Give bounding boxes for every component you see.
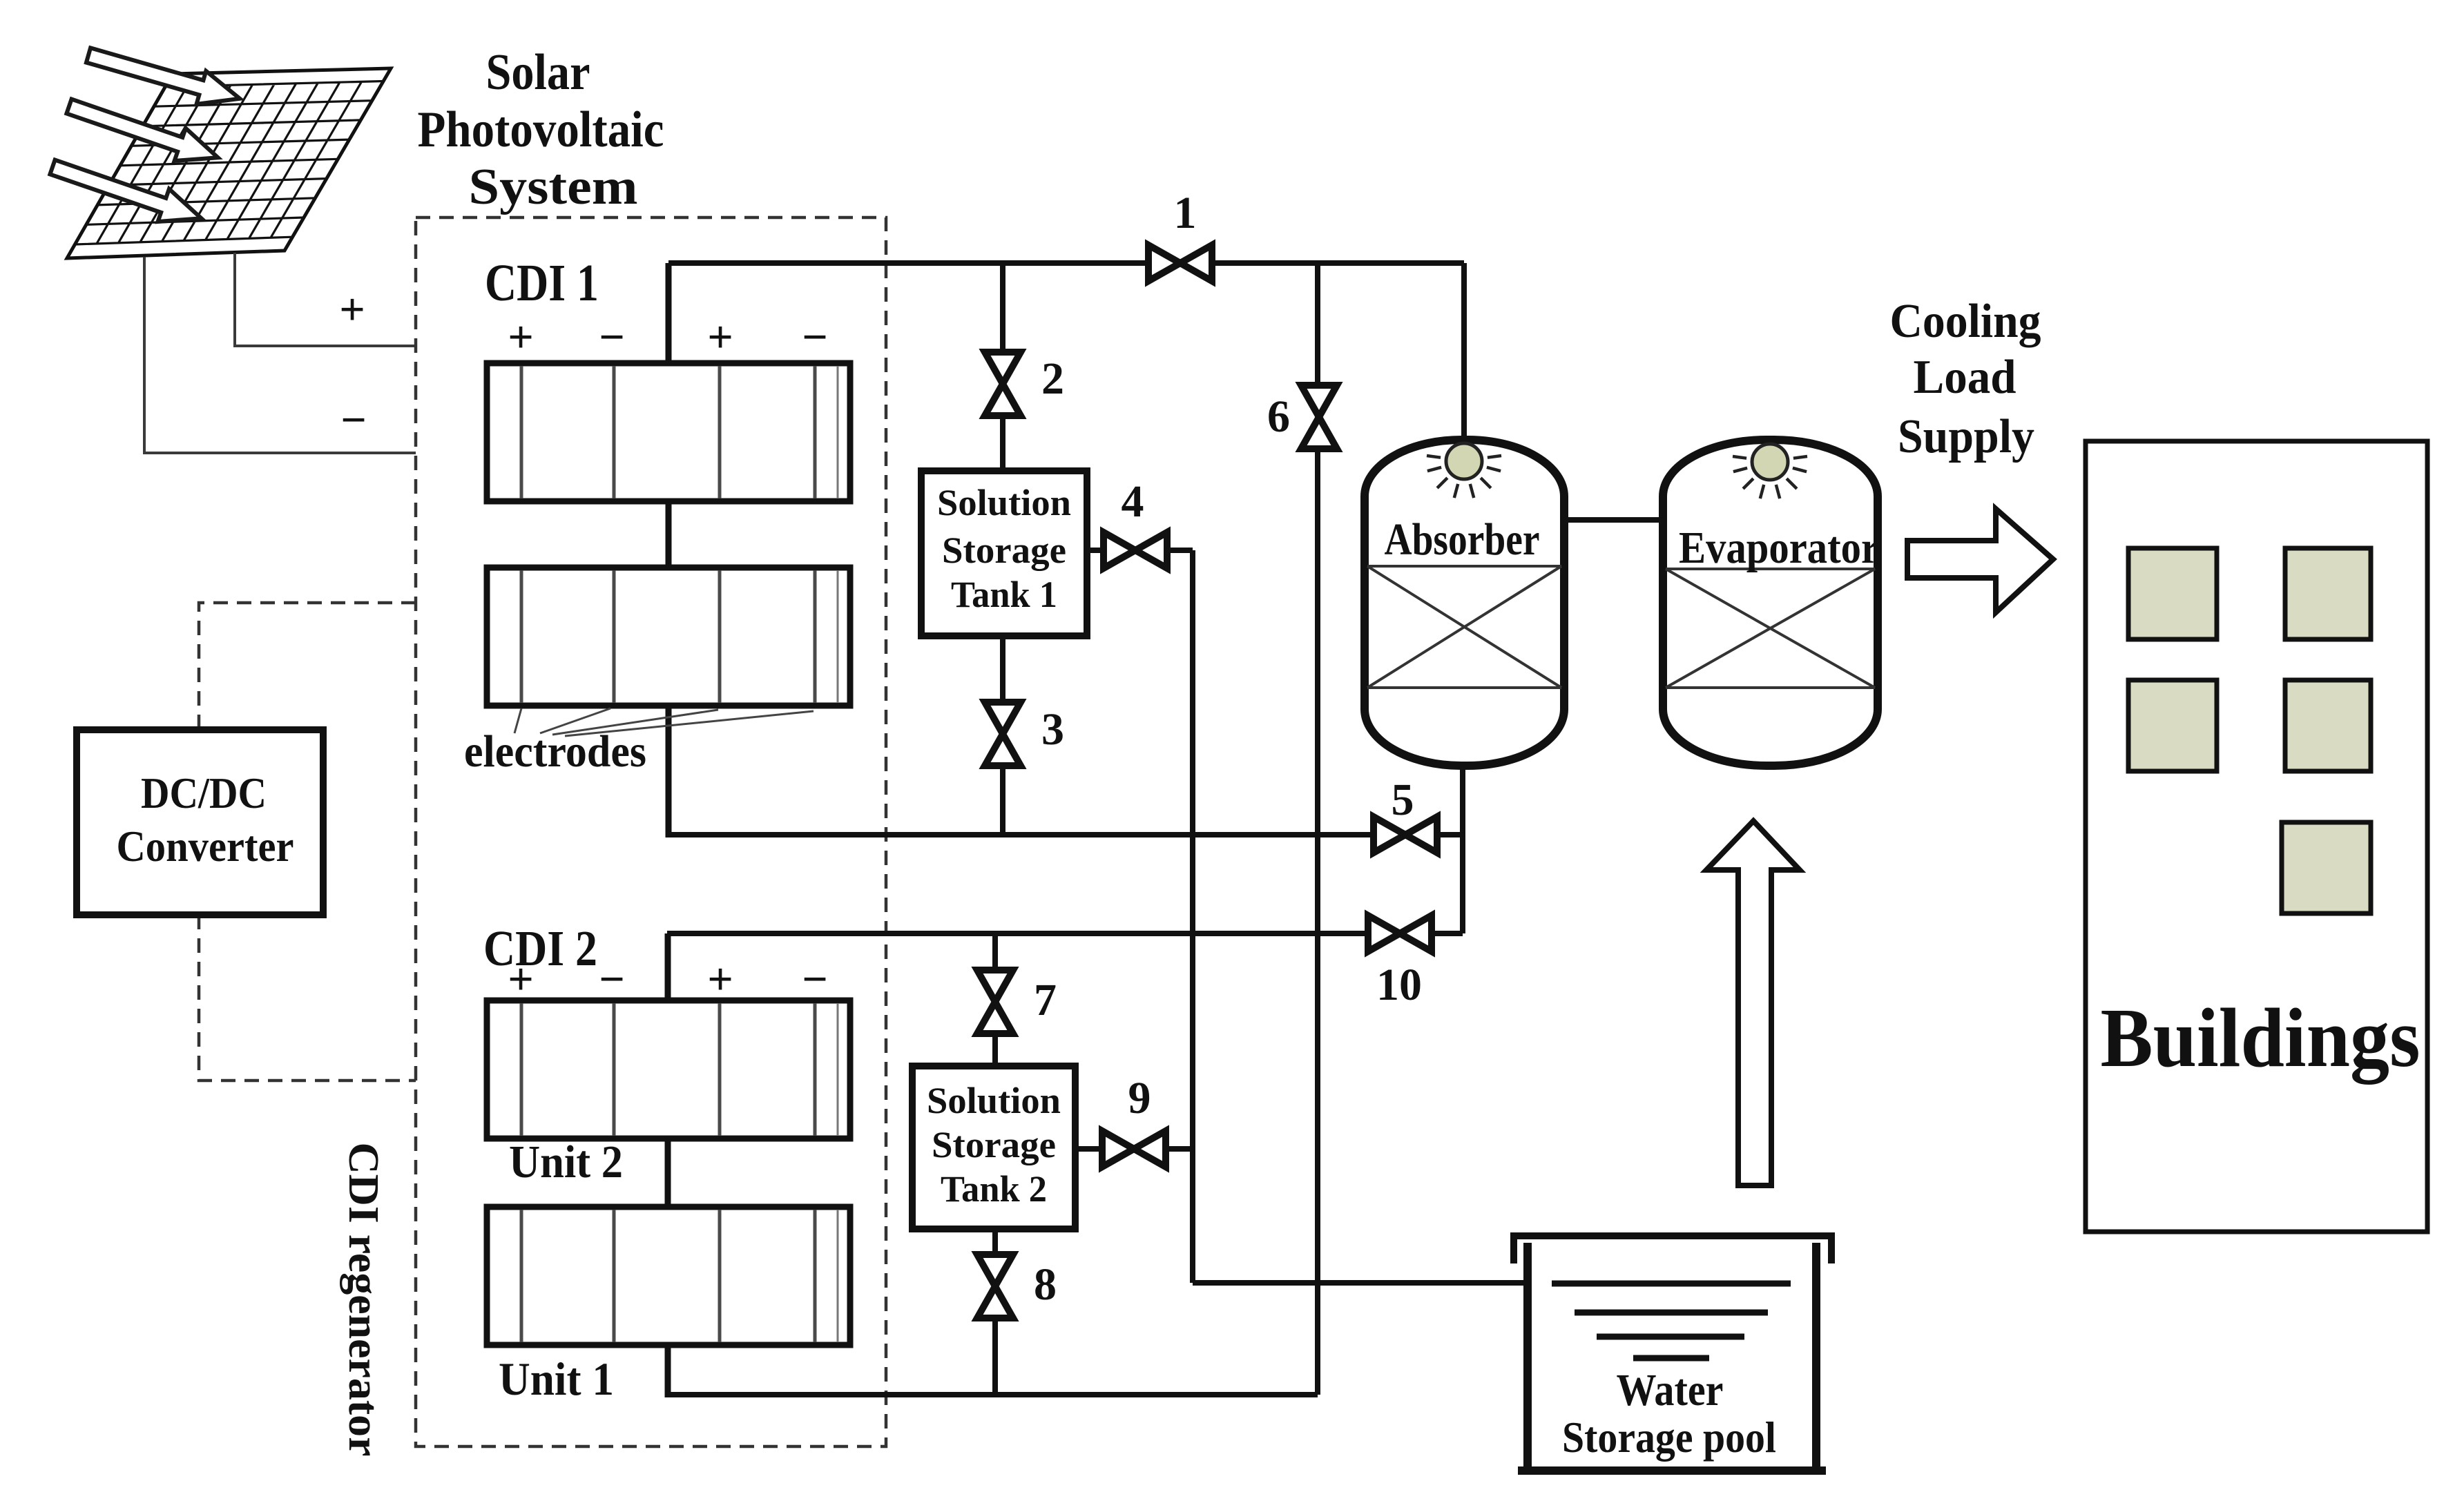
svg-text:+: + bbox=[508, 312, 534, 362]
svg-text:Storage: Storage bbox=[932, 1124, 1056, 1165]
svg-text:Tank 1: Tank 1 bbox=[951, 574, 1057, 615]
svg-text:Unit 2: Unit 2 bbox=[509, 1136, 623, 1188]
svg-text:DC/DC: DC/DC bbox=[141, 769, 267, 817]
wire + from PV to CDI box bbox=[235, 253, 416, 346]
svg-text:9: 9 bbox=[1128, 1073, 1151, 1123]
water surface lines bbox=[1552, 1284, 1791, 1358]
wire CDI2 bottom to pipe bbox=[665, 1342, 671, 1397]
svg-text:Water: Water bbox=[1617, 1365, 1724, 1415]
wire between CDI1 stacks bbox=[666, 498, 672, 570]
main pipes bbox=[667, 263, 1663, 1395]
svg-text:CDI 1: CDI 1 bbox=[485, 254, 599, 312]
svg-text:Supply: Supply bbox=[1898, 410, 2034, 463]
dashed box CDI regenerator bbox=[416, 217, 886, 1446]
wire between CDI2 stacks bbox=[665, 1136, 671, 1210]
sun ray arrow 2 bbox=[64, 90, 224, 174]
water storage pool body bbox=[1518, 1243, 1826, 1471]
svg-text:10: 10 bbox=[1376, 960, 1422, 1010]
pipe absorber bottom drop bbox=[1460, 759, 1465, 933]
svg-text:7: 7 bbox=[1034, 975, 1057, 1025]
svg-text:Unit 1: Unit 1 bbox=[499, 1353, 614, 1405]
svg-text:Storage: Storage bbox=[942, 530, 1066, 571]
svg-text:−: − bbox=[599, 312, 625, 362]
svg-text:−: − bbox=[802, 954, 828, 1005]
dashed link DC/DC to CDI box bbox=[199, 603, 416, 1081]
svg-text:Solar: Solar bbox=[486, 44, 590, 101]
CDI2 electrode stack upper (Unit 2) bbox=[487, 1000, 850, 1139]
wire pipe to CDI2 top bbox=[665, 933, 671, 1003]
pipe tank1 to valve4 bbox=[1084, 548, 1193, 553]
Absorber vessel bbox=[1365, 440, 1564, 766]
valve 9 bbox=[1102, 1131, 1166, 1167]
svg-text:Converter: Converter bbox=[117, 822, 294, 871]
svg-text:+: + bbox=[339, 284, 365, 335]
water storage pool rim bbox=[1514, 1236, 1831, 1263]
sun ray arrow 1 bbox=[84, 39, 244, 115]
pipe absorber to evaporator bbox=[1564, 517, 1663, 523]
CDI1 electrode stack upper bbox=[487, 363, 850, 501]
sun ray arrow 3 bbox=[47, 151, 207, 235]
svg-text:+: + bbox=[508, 954, 534, 1005]
svg-text:Solution: Solution bbox=[937, 482, 1071, 523]
valve 3 bbox=[985, 702, 1021, 766]
valve 2 bbox=[985, 352, 1021, 416]
svg-text:+: + bbox=[707, 312, 733, 362]
svg-text:4: 4 bbox=[1122, 476, 1144, 527]
svg-text:Storage pool: Storage pool bbox=[1562, 1413, 1776, 1462]
svg-text:−: − bbox=[599, 954, 625, 1005]
svg-text:Tank 2: Tank 2 bbox=[941, 1168, 1047, 1210]
CDI2 electrode stack lower (Unit 1) bbox=[487, 1207, 850, 1345]
pipe to water pool bbox=[1193, 1280, 1529, 1286]
pipe CDI1 bottom header (valve 5 line) bbox=[667, 832, 1463, 837]
svg-text:1: 1 bbox=[1174, 188, 1197, 238]
CDI1 electrode stack lower bbox=[487, 568, 850, 706]
window 1 bbox=[2128, 548, 2217, 639]
wire - from PV to CDI box bbox=[144, 257, 416, 453]
valve 7 bbox=[977, 970, 1013, 1034]
Absorber lamp bbox=[1427, 443, 1501, 498]
pipe top header bbox=[668, 260, 1464, 266]
solar panel PV1 bbox=[67, 68, 391, 258]
valve 8 bbox=[977, 1255, 1013, 1318]
valve 4 bbox=[1104, 532, 1167, 568]
wire PV bus to CDI1 top bbox=[666, 263, 672, 366]
Solution Storage Tank 1 bbox=[921, 471, 1087, 636]
valve 6 bbox=[1301, 385, 1337, 449]
pipe CDI2 bottom return bbox=[667, 1392, 1318, 1397]
pipe tank2 to valve8 bbox=[992, 1226, 998, 1395]
block arrow to buildings bbox=[1907, 509, 2053, 612]
pipe CDI2 top header (valve 10 line) bbox=[667, 931, 1463, 936]
valve 5 bbox=[1374, 817, 1437, 853]
window 3 bbox=[2128, 680, 2217, 771]
pipe tank1 to valve3 bbox=[1000, 632, 1005, 835]
electrode pointer lines bbox=[514, 708, 814, 736]
svg-text:−: − bbox=[340, 395, 367, 445]
Buildings box bbox=[2086, 441, 2427, 1232]
up arrow water to evaporator bbox=[1706, 821, 1800, 1185]
pipe valve4 corner down to pool bbox=[1190, 550, 1195, 1283]
svg-text:3: 3 bbox=[1041, 704, 1064, 755]
Evaporator lamp bbox=[1733, 444, 1807, 498]
svg-text:CDI regenerator: CDI regenerator bbox=[340, 1143, 387, 1457]
svg-text:System: System bbox=[469, 159, 638, 215]
svg-text:−: − bbox=[802, 312, 828, 362]
svg-text:Evaporator: Evaporator bbox=[1679, 523, 1879, 573]
pipe absorber top inlet bbox=[1461, 263, 1467, 450]
wire CDI1 bottom to pipe bbox=[666, 703, 672, 837]
pipe valve7 to tank2 bbox=[992, 933, 998, 1070]
window 5 bbox=[2282, 822, 2371, 913]
window 4 bbox=[2285, 680, 2371, 771]
pipe tank2 to valve9 bbox=[1072, 1146, 1193, 1152]
Evaporator vessel bbox=[1663, 440, 1878, 766]
svg-text:5: 5 bbox=[1392, 775, 1414, 825]
Solution Storage Tank 2 bbox=[912, 1066, 1075, 1229]
svg-text:8: 8 bbox=[1034, 1259, 1057, 1310]
valve 1 bbox=[1148, 245, 1212, 281]
pipe valve6 riser bbox=[1315, 263, 1320, 1395]
svg-text:Cooling: Cooling bbox=[1890, 295, 2041, 348]
window 2 bbox=[2285, 548, 2371, 639]
svg-text:CDI 2: CDI 2 bbox=[483, 920, 597, 976]
svg-text:Photovoltaic: Photovoltaic bbox=[418, 101, 664, 158]
svg-text:Absorber: Absorber bbox=[1385, 514, 1540, 565]
DC/DC Converter box bbox=[77, 730, 323, 915]
svg-text:2: 2 bbox=[1041, 354, 1064, 404]
svg-text:Solution: Solution bbox=[927, 1080, 1061, 1121]
svg-text:+: + bbox=[707, 954, 733, 1005]
pipe to valve2/tank1 bbox=[1000, 263, 1005, 476]
svg-text:Buildings: Buildings bbox=[2101, 991, 2420, 1085]
svg-text:Load: Load bbox=[1914, 351, 2017, 404]
valve 10 bbox=[1368, 916, 1432, 951]
svg-text:6: 6 bbox=[1267, 391, 1290, 442]
